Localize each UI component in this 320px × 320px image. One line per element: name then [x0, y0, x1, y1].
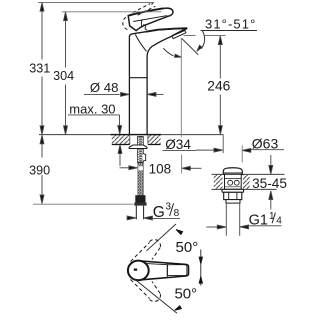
second hose fitting	[143, 153, 146, 161]
svg-text:50°: 50°	[176, 239, 199, 256]
svg-text:50°: 50°	[174, 286, 197, 303]
column seam	[129, 77, 147, 79]
dim 35-45	[252, 155, 287, 209]
curved leader to stream ray	[201, 31, 205, 49]
deck cross-section (faucet)	[39, 135, 223, 154]
dim G1 1/4	[206, 211, 282, 229]
mounting washer below deck	[129, 145, 147, 149]
dim 304	[53, 12, 161, 135]
hatch left block	[112, 135, 130, 145]
svg-text:G1: G1	[249, 212, 268, 228]
svg-text:Ø63: Ø63	[252, 136, 279, 152]
dim Ø63	[242, 136, 284, 163]
45 deg stream ray	[182, 38, 199, 55]
threaded tailpiece	[226, 203, 239, 236]
svg-text:331: 331	[29, 61, 50, 75]
G3/8 nipple tube	[136, 206, 143, 220]
dim 31°-51°	[163, 16, 257, 58]
svg-text:3: 3	[166, 201, 172, 212]
dashed raised lever	[123, 2, 156, 30]
svg-text:Ø 48: Ø 48	[90, 80, 119, 95]
dim Ø48	[84, 80, 164, 96]
pop-up cap	[223, 168, 242, 174]
faucet body column and spout	[129, 28, 187, 134]
threaded stud	[138, 136, 144, 162]
dim 331	[29, 3, 154, 135]
lever handle top view body	[141, 261, 188, 280]
svg-text:8: 8	[174, 208, 180, 219]
dashed rotated lever (up position)	[131, 239, 161, 261]
thick top edge of lever	[129, 8, 164, 15]
dashed rotated lever (down position)	[131, 280, 161, 302]
svg-text:G: G	[153, 204, 165, 221]
inner arc arrow	[163, 48, 173, 56]
spout aerator face	[172, 30, 186, 38]
dim 108	[120, 39, 202, 177]
lock ring	[226, 200, 240, 204]
right deck edge drop	[222, 135, 224, 154]
dim 390	[29, 135, 133, 204]
svg-text:304: 304	[53, 69, 74, 83]
svg-text:31°-51°: 31°-51°	[205, 16, 256, 31]
dim G3/8	[127, 201, 181, 221]
svg-text:390: 390	[29, 164, 50, 178]
tip reference line with small arrows	[200, 250, 202, 286]
spout top thick edge	[146, 28, 187, 32]
pivot circle	[128, 261, 149, 281]
inner end cap	[166, 263, 168, 276]
svg-text:Ø34: Ø34	[165, 137, 191, 152]
dim 246	[184, 36, 231, 135]
svg-text:35-45: 35-45	[252, 176, 287, 191]
hole edges	[130, 135, 148, 145]
hatch right block	[148, 135, 161, 145]
dim Ø34	[163, 137, 223, 152]
flange under deck	[222, 189, 244, 192]
body parting curve	[135, 34, 146, 51]
svg-text:246: 246	[207, 79, 230, 94]
spout end return edge (thick)	[172, 28, 187, 36]
arc arrows	[175, 228, 182, 234]
lever handle side view	[128, 8, 173, 30]
deck cross-section (waste)	[214, 175, 223, 189]
lever boss arcs	[140, 19, 143, 27]
svg-text:4: 4	[276, 216, 282, 227]
waste body in hole	[225, 174, 242, 189]
angle rays	[147, 224, 177, 251]
dim max. 30	[68, 102, 122, 166]
hex nut	[224, 192, 242, 199]
deck top line	[39, 134, 223, 136]
svg-text:108: 108	[149, 161, 172, 176]
svg-text:max. 30: max. 30	[69, 102, 115, 117]
braided flex hose	[138, 163, 143, 197]
hose crimp fitting	[135, 195, 145, 203]
deck bottom lines	[112, 144, 161, 146]
